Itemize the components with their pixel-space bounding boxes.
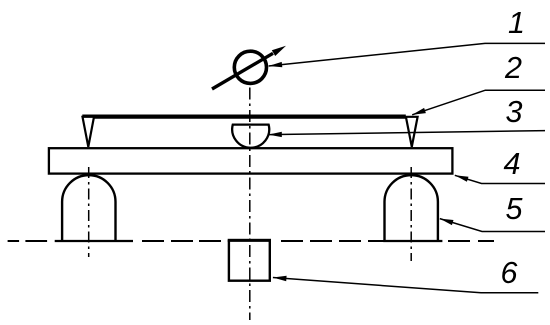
dial indicator arrow stem xyxy=(212,53,273,89)
leader line 6 xyxy=(273,278,538,293)
right knife-edge support xyxy=(406,117,418,147)
svg-text:1: 1 xyxy=(508,6,525,40)
right cylindrical support (5) xyxy=(385,175,438,242)
left knife-edge support xyxy=(83,117,95,147)
dial indicator (1) xyxy=(234,51,266,83)
left cylindrical support (5) xyxy=(62,175,115,242)
leader line 1 xyxy=(269,43,545,66)
surface plate (4) xyxy=(49,148,453,173)
ball support (3) xyxy=(232,125,269,148)
leader line 2 xyxy=(412,90,545,115)
block (6) xyxy=(229,240,270,281)
leader line 4 xyxy=(455,175,545,183)
svg-text:6: 6 xyxy=(501,256,518,290)
leader line 5 xyxy=(440,219,545,232)
ground line (dashed table surface) xyxy=(8,240,494,242)
centerline (vertical axis: indicator / ball support / block) xyxy=(249,88,251,321)
centerline (left support axis) xyxy=(88,167,90,257)
svg-text:2: 2 xyxy=(504,51,522,85)
leader line 3 xyxy=(268,131,545,135)
svg-text:5: 5 xyxy=(506,192,524,226)
straightedge ruler (2) xyxy=(82,114,406,118)
svg-text:3: 3 xyxy=(506,95,523,129)
centerline (right support axis) xyxy=(410,167,412,261)
svg-text:4: 4 xyxy=(504,147,521,181)
